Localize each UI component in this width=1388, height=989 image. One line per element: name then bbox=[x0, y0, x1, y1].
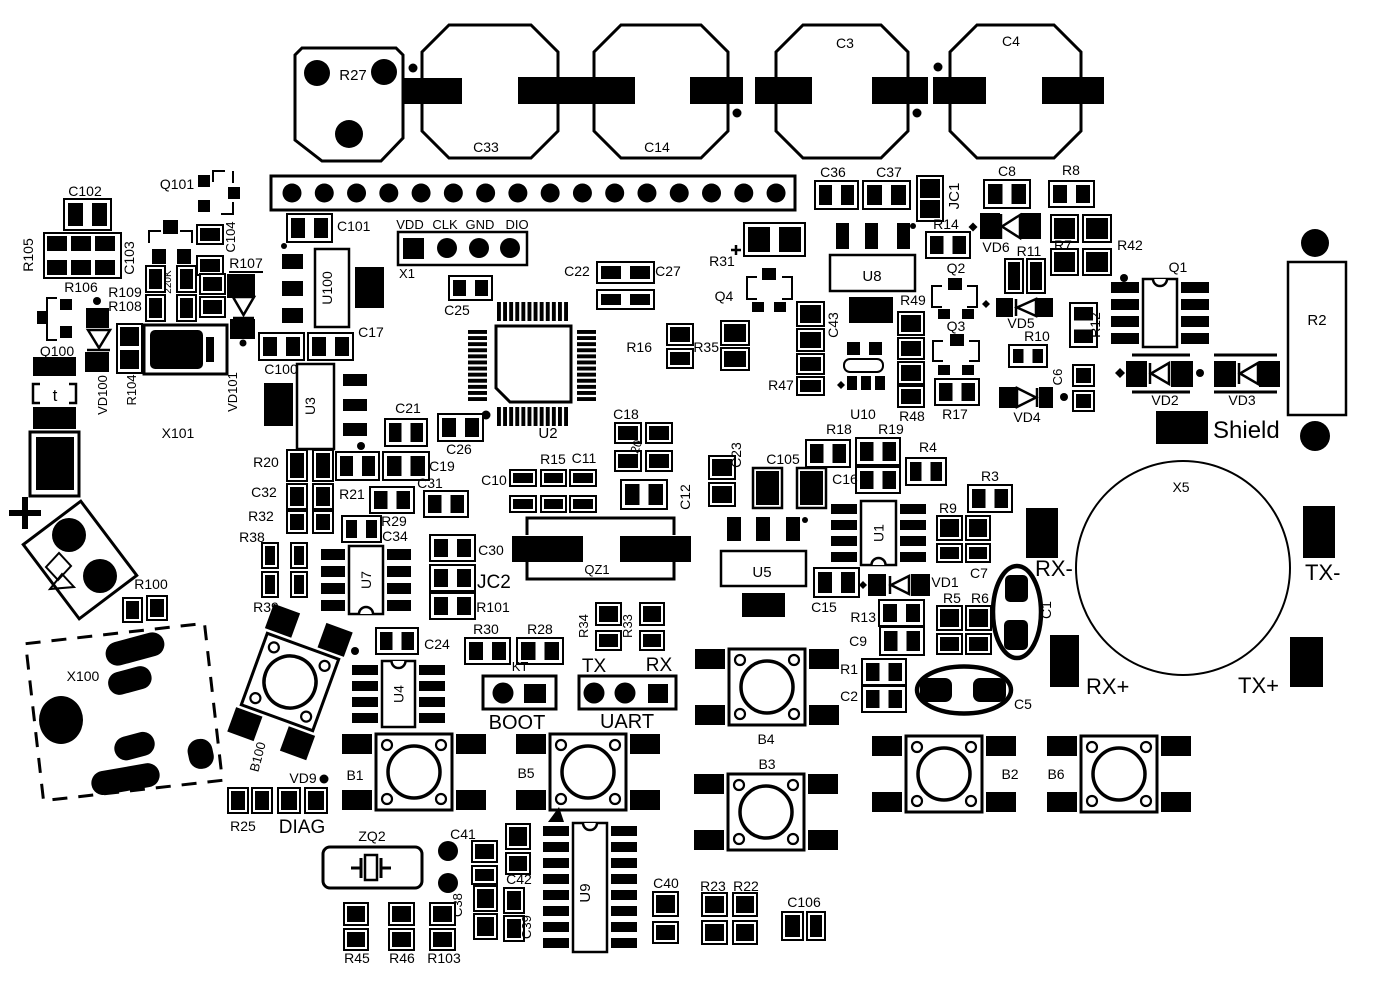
svg-text:U1: U1 bbox=[871, 524, 887, 542]
svg-text:C12: C12 bbox=[677, 484, 693, 510]
svg-text:C104: C104 bbox=[223, 221, 238, 252]
svg-text:R18: R18 bbox=[826, 421, 852, 437]
svg-text:VD101: VD101 bbox=[225, 372, 240, 412]
svg-text:RX+: RX+ bbox=[1086, 674, 1129, 699]
svg-text:R23: R23 bbox=[700, 878, 726, 894]
svg-text:Shield: Shield bbox=[1213, 417, 1280, 444]
svg-text:C25: C25 bbox=[444, 302, 470, 318]
svg-text:R12: R12 bbox=[1087, 312, 1103, 338]
svg-text:U9: U9 bbox=[577, 883, 594, 902]
svg-text:C18: C18 bbox=[613, 406, 639, 422]
svg-text:R39: R39 bbox=[253, 599, 279, 615]
svg-text:CLK: CLK bbox=[432, 217, 458, 232]
svg-text:R16: R16 bbox=[626, 339, 652, 355]
svg-text:C14: C14 bbox=[644, 139, 670, 155]
svg-text:C21: C21 bbox=[395, 400, 421, 416]
svg-text:C22: C22 bbox=[564, 263, 590, 279]
svg-text:VD9: VD9 bbox=[289, 770, 316, 786]
svg-text:Q4: Q4 bbox=[715, 288, 734, 304]
svg-text:Q2: Q2 bbox=[947, 260, 966, 276]
svg-text:R46: R46 bbox=[389, 950, 415, 966]
svg-text:C15: C15 bbox=[811, 599, 837, 615]
svg-text:R15: R15 bbox=[540, 451, 566, 467]
svg-text:C37: C37 bbox=[876, 164, 902, 180]
svg-text:GND: GND bbox=[466, 217, 495, 232]
svg-text:R14: R14 bbox=[933, 216, 959, 232]
svg-text:C27: C27 bbox=[655, 263, 681, 279]
svg-text:R2: R2 bbox=[1307, 312, 1326, 329]
svg-text:C41: C41 bbox=[450, 826, 476, 842]
svg-text:C43: C43 bbox=[825, 312, 841, 338]
svg-text:R31: R31 bbox=[709, 253, 735, 269]
svg-text:C8: C8 bbox=[998, 163, 1016, 179]
svg-text:C6: C6 bbox=[1050, 369, 1065, 386]
svg-text:Q3: Q3 bbox=[947, 318, 966, 334]
svg-text:C2: C2 bbox=[840, 688, 858, 704]
svg-text:DIAG: DIAG bbox=[279, 817, 325, 838]
svg-text:C40: C40 bbox=[653, 875, 679, 891]
svg-text:R8: R8 bbox=[1062, 162, 1080, 178]
svg-text:X1: X1 bbox=[399, 266, 415, 281]
svg-text:X101: X101 bbox=[162, 425, 195, 441]
svg-text:R7: R7 bbox=[1054, 237, 1072, 253]
svg-text:R101: R101 bbox=[476, 599, 510, 615]
svg-text:C106: C106 bbox=[787, 894, 821, 910]
svg-text:C26: C26 bbox=[446, 441, 472, 457]
svg-text:RX: RX bbox=[646, 655, 673, 676]
svg-text:C16: C16 bbox=[832, 471, 858, 487]
svg-text:JC2: JC2 bbox=[477, 572, 511, 593]
svg-text:UART: UART bbox=[600, 711, 654, 733]
svg-text:C100: C100 bbox=[264, 361, 298, 377]
svg-text:C23: C23 bbox=[728, 442, 744, 468]
svg-text:C19: C19 bbox=[429, 458, 455, 474]
svg-text:C7: C7 bbox=[970, 565, 988, 581]
svg-text:R108: R108 bbox=[108, 298, 142, 314]
svg-text:C1: C1 bbox=[1038, 601, 1054, 619]
svg-text:TX: TX bbox=[582, 656, 607, 677]
svg-text:BOOT: BOOT bbox=[489, 712, 546, 734]
svg-text:R27: R27 bbox=[339, 67, 367, 84]
svg-text:R28: R28 bbox=[527, 621, 553, 637]
svg-text:R1: R1 bbox=[840, 661, 858, 677]
svg-text:VD6: VD6 bbox=[982, 239, 1009, 255]
svg-text:C33: C33 bbox=[473, 139, 499, 155]
svg-text:C105: C105 bbox=[766, 451, 800, 467]
svg-text:QZ1: QZ1 bbox=[584, 562, 609, 577]
svg-text:B2: B2 bbox=[1001, 766, 1018, 782]
svg-text:C11: C11 bbox=[572, 450, 597, 466]
svg-text:R10: R10 bbox=[1024, 328, 1050, 344]
svg-text:R47: R47 bbox=[768, 377, 794, 393]
svg-text:R32: R32 bbox=[248, 508, 274, 524]
svg-text:R21: R21 bbox=[339, 486, 365, 502]
svg-text:C42: C42 bbox=[506, 871, 532, 887]
svg-text:R4: R4 bbox=[919, 439, 937, 455]
svg-text:C32: C32 bbox=[251, 484, 277, 500]
svg-text:R49: R49 bbox=[900, 292, 926, 308]
svg-text:R30: R30 bbox=[473, 621, 499, 637]
svg-text:Q101: Q101 bbox=[160, 176, 194, 192]
svg-text:R9: R9 bbox=[939, 500, 957, 516]
svg-text:R17: R17 bbox=[942, 406, 968, 422]
svg-text:C102: C102 bbox=[68, 183, 102, 199]
svg-text:R11: R11 bbox=[1017, 243, 1042, 259]
svg-text:R3: R3 bbox=[981, 468, 999, 484]
svg-text:C39: C39 bbox=[519, 915, 534, 939]
svg-text:B5: B5 bbox=[517, 765, 534, 781]
svg-text:JC1: JC1 bbox=[946, 183, 963, 210]
svg-text:C4: C4 bbox=[1002, 33, 1020, 49]
svg-text:C31: C31 bbox=[417, 475, 443, 491]
svg-text:Q1: Q1 bbox=[1169, 259, 1188, 275]
svg-text:U4: U4 bbox=[391, 685, 407, 703]
svg-text:C103: C103 bbox=[121, 241, 137, 275]
svg-text:C17: C17 bbox=[358, 324, 384, 340]
svg-text:U8: U8 bbox=[862, 268, 881, 285]
svg-text:KT: KT bbox=[512, 659, 529, 674]
svg-text:R34: R34 bbox=[576, 614, 591, 638]
svg-text:U3: U3 bbox=[302, 397, 318, 415]
svg-text:B1: B1 bbox=[346, 767, 363, 783]
svg-text:C3: C3 bbox=[836, 35, 854, 51]
svg-text:U10: U10 bbox=[850, 406, 876, 422]
svg-text:B4: B4 bbox=[757, 731, 774, 747]
svg-text:B6: B6 bbox=[1047, 766, 1064, 782]
svg-text:B3: B3 bbox=[758, 756, 775, 772]
svg-text:R106: R106 bbox=[64, 279, 98, 295]
svg-text:R25: R25 bbox=[230, 818, 256, 834]
svg-text:R107: R107 bbox=[229, 255, 263, 271]
svg-text:U5: U5 bbox=[752, 564, 771, 581]
svg-text:U100: U100 bbox=[319, 271, 335, 305]
svg-text:R5: R5 bbox=[943, 590, 961, 606]
svg-text:RX-: RX- bbox=[1035, 556, 1073, 581]
svg-text:VD3: VD3 bbox=[1228, 392, 1255, 408]
svg-text:t: t bbox=[53, 386, 58, 405]
svg-text:R29: R29 bbox=[381, 513, 407, 529]
svg-text:R35: R35 bbox=[693, 339, 719, 355]
svg-text:C36: C36 bbox=[820, 164, 846, 180]
svg-text:VD2: VD2 bbox=[1151, 392, 1178, 408]
svg-text:U7: U7 bbox=[358, 571, 374, 589]
svg-text:R45: R45 bbox=[344, 950, 370, 966]
svg-text:C24: C24 bbox=[424, 636, 450, 652]
svg-text:R42: R42 bbox=[1117, 237, 1143, 253]
svg-text:R22: R22 bbox=[733, 878, 759, 894]
svg-text:VD100: VD100 bbox=[95, 375, 110, 415]
svg-text:R33: R33 bbox=[620, 614, 635, 638]
svg-text:C34: C34 bbox=[382, 528, 408, 544]
svg-text:U2: U2 bbox=[538, 425, 557, 442]
svg-text:C30: C30 bbox=[478, 542, 504, 558]
svg-text:C101: C101 bbox=[337, 218, 371, 234]
svg-text:ZQ2: ZQ2 bbox=[358, 828, 385, 844]
svg-text:VD1: VD1 bbox=[931, 574, 958, 590]
svg-text:R105: R105 bbox=[20, 238, 36, 272]
svg-text:TX+: TX+ bbox=[1238, 673, 1279, 698]
svg-text:R104: R104 bbox=[124, 374, 139, 405]
svg-text:R20: R20 bbox=[253, 454, 279, 470]
svg-text:X100: X100 bbox=[67, 668, 100, 684]
svg-text:R100: R100 bbox=[134, 576, 168, 592]
svg-text:VD4: VD4 bbox=[1013, 409, 1040, 425]
svg-text:X5: X5 bbox=[1172, 479, 1189, 495]
svg-text:DIO: DIO bbox=[505, 217, 528, 232]
svg-text:Q100: Q100 bbox=[40, 343, 74, 359]
svg-text:R19: R19 bbox=[878, 421, 904, 437]
svg-text:C9: C9 bbox=[849, 633, 867, 649]
svg-text:B100: B100 bbox=[246, 740, 268, 773]
svg-text:C10: C10 bbox=[481, 472, 507, 488]
svg-text:C5: C5 bbox=[1014, 696, 1032, 712]
svg-text:R6: R6 bbox=[971, 590, 989, 606]
svg-text:VDD: VDD bbox=[396, 217, 423, 232]
svg-text:R103: R103 bbox=[427, 950, 461, 966]
svg-text:R13: R13 bbox=[850, 609, 876, 625]
svg-text:TX-: TX- bbox=[1305, 560, 1340, 585]
